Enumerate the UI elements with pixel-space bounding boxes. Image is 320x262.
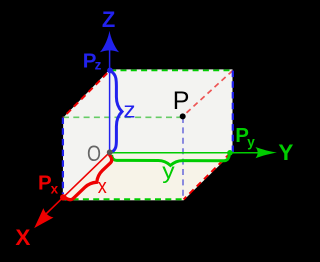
wire: top right edge (red dashed) [183,71,233,117]
Z axis [109,38,111,153]
svg-text:Y: Y [278,140,293,165]
svg-text:z: z [95,57,102,72]
wire: bottom right edge (red dashed) [184,153,231,199]
node Pz [107,68,113,74]
svg-text:y: y [247,134,255,149]
brace z (blue) [111,71,122,152]
wire: bottom front edge (green dashed) [62,198,183,200]
svg-text:X: X [15,225,30,250]
brace y (green) [112,155,230,166]
svg-text:P: P [173,87,190,115]
node Py [227,150,233,156]
svg-text:z: z [123,98,135,123]
svg-text:x: x [51,182,59,197]
svg-text:O: O [87,141,101,166]
brace x (red) [65,154,112,199]
bottom face [63,152,232,200]
svg-text:y: y [162,158,174,183]
node Px [60,194,66,200]
wire: top front edge (green dashed) [63,116,183,118]
svg-text:x: x [98,176,107,198]
wire: back right vertical edge (blue dashed) [232,71,234,153]
wire: top left edge (red dashed) [63,73,107,117]
wire: top back edge (green dashed) [110,69,233,71]
Y axis [110,152,260,154]
wire: front left vertical edge (blue dashed) [62,118,64,195]
box silhouette face [63,69,233,200]
svg-text:Z: Z [102,7,116,32]
node O [107,149,113,155]
wire: vertical through P (blue dashed) [182,117,184,199]
X axis [46,152,110,214]
node P [180,113,186,119]
